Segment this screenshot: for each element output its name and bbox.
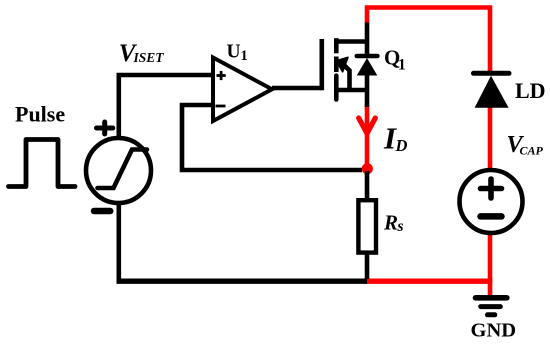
svg-text:LD: LD xyxy=(515,78,546,103)
svg-text:ISET: ISET xyxy=(133,50,165,65)
svg-text:U: U xyxy=(227,42,241,63)
svg-text:CAP: CAP xyxy=(520,144,544,158)
svg-text:D: D xyxy=(395,136,408,155)
svg-text:s: s xyxy=(397,218,404,235)
svg-text:R: R xyxy=(383,211,398,235)
svg-text:1: 1 xyxy=(398,57,406,74)
svg-text:1: 1 xyxy=(241,48,248,64)
svg-text:Pulse: Pulse xyxy=(15,102,65,127)
svg-text:GND: GND xyxy=(471,320,517,342)
